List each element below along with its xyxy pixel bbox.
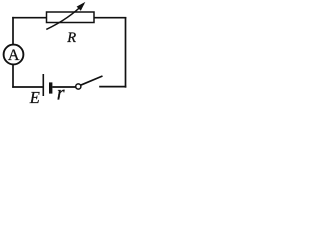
label R bbox=[66, 30, 76, 46]
battery E r bbox=[43, 74, 50, 96]
switch S bbox=[76, 76, 103, 89]
wire left lower bbox=[12, 65, 14, 88]
svg-text:R: R bbox=[66, 30, 76, 46]
svg-text:r: r bbox=[57, 83, 65, 105]
wire battery to switch bbox=[52, 86, 75, 88]
svg-text:A: A bbox=[8, 47, 20, 64]
wire bottom-left bbox=[12, 86, 43, 88]
ammeter A bbox=[4, 45, 24, 65]
svg-text:E: E bbox=[29, 88, 40, 106]
label E bbox=[29, 88, 40, 107]
wire switch fixed contact bbox=[99, 86, 126, 88]
wire left upper bbox=[12, 17, 14, 45]
wire top-right bbox=[94, 17, 126, 19]
wire top-left bbox=[12, 17, 47, 19]
wire right vertical bbox=[125, 17, 127, 88]
label r bbox=[57, 83, 65, 105]
resistor R bbox=[46, 2, 94, 30]
